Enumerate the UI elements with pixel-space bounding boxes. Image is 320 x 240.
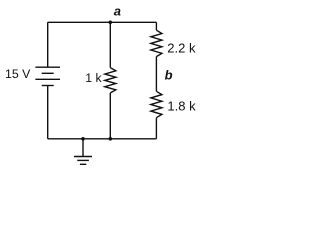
ground: [74, 139, 92, 165]
resistor 2.2 k: [151, 30, 162, 56]
wire bottom: [48, 138, 157, 140]
junction dot middle bottom: [109, 137, 113, 141]
wire left bottom: [47, 86, 49, 139]
wire right bottom: [155, 118, 157, 139]
wire right middle: [155, 57, 157, 92]
battery 15 V: [35, 67, 60, 85]
svg-text:b: b: [165, 68, 173, 83]
wire middle bottom: [109, 93, 111, 139]
resistor 1 k: [105, 68, 116, 93]
wire right top: [155, 22, 157, 30]
wire left top: [47, 22, 49, 67]
junction dot ground tap: [81, 137, 85, 141]
svg-text:1 k: 1 k: [85, 71, 102, 85]
resistor 1.8 k: [151, 91, 162, 117]
node a junction dot: [109, 21, 113, 25]
wire top: [48, 21, 157, 23]
svg-text:15 V: 15 V: [5, 67, 31, 81]
svg-text:2.2 k: 2.2 k: [167, 40, 196, 55]
wire middle top: [109, 22, 111, 67]
svg-text:a: a: [114, 3, 121, 18]
svg-text:1.8 k: 1.8 k: [167, 99, 196, 114]
